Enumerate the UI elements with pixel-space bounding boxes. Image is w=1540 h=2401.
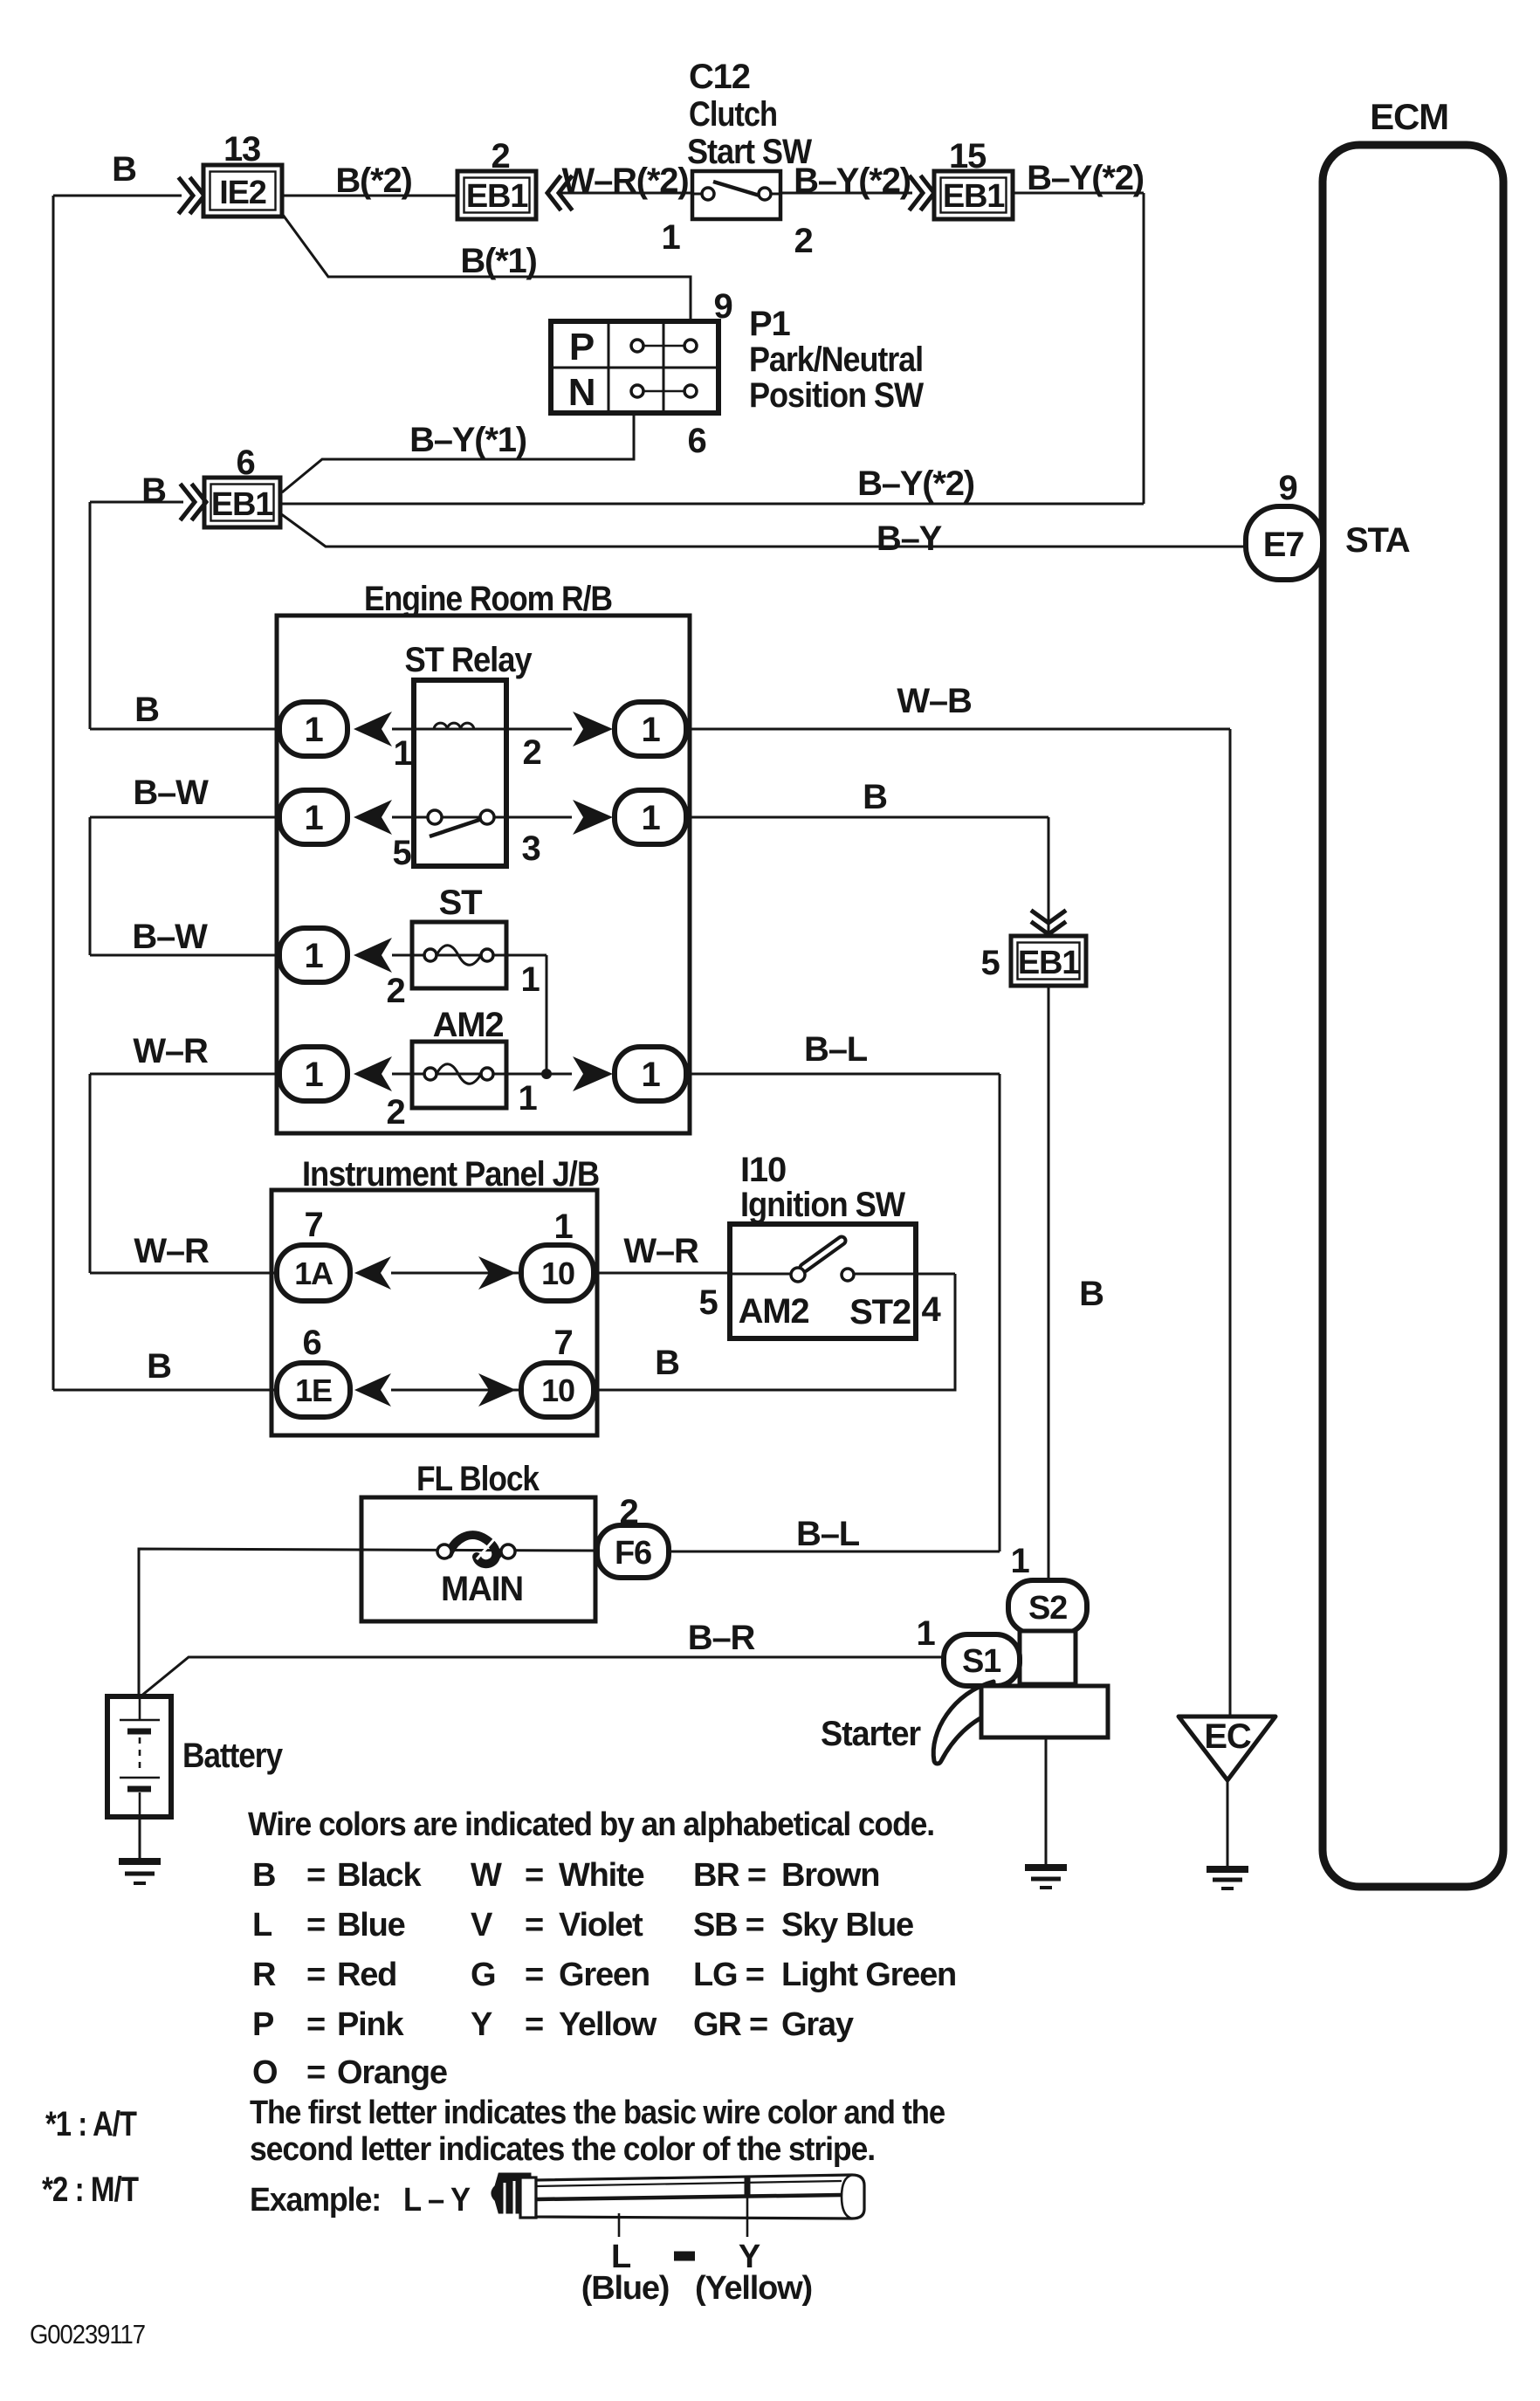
- svg-text:13: 13: [223, 130, 260, 169]
- wire vertical B-Y(*2): [1143, 193, 1145, 504]
- svg-text:B: B: [134, 691, 159, 729]
- svg-text:1: 1: [661, 218, 680, 257]
- connector oval 1 (row3 left): [279, 928, 347, 982]
- svg-text:1: 1: [520, 960, 540, 999]
- connector oval 1 (row2 right): [615, 790, 686, 844]
- svg-text:EB1: EB1: [466, 178, 528, 215]
- svg-text:1: 1: [393, 734, 412, 773]
- wire B-L vertical: [999, 1074, 1001, 1551]
- svg-text:LG =: LG =: [693, 1957, 764, 1993]
- svg-text:S1: S1: [962, 1643, 1001, 1680]
- svg-text:EB1: EB1: [943, 178, 1005, 215]
- svg-text:2: 2: [794, 222, 812, 260]
- ground (starter): [1025, 1868, 1067, 1888]
- svg-text:1: 1: [1010, 1542, 1029, 1580]
- svg-text:Sky Blue: Sky Blue: [781, 1907, 913, 1944]
- wire W-B vertical to EC: [1229, 729, 1232, 1716]
- connector oval 1 (row4 right): [615, 1047, 686, 1101]
- svg-text:STA: STA: [1345, 521, 1410, 560]
- svg-text:Clutch: Clutch: [689, 95, 777, 134]
- svg-text:F6: F6: [615, 1535, 651, 1572]
- connector oval 10 pin 7: [521, 1324, 594, 1417]
- relay ST Relay: [405, 641, 533, 866]
- wire EC to ground: [1227, 1780, 1229, 1868]
- svg-text:Red: Red: [337, 1957, 396, 1993]
- svg-text:10: 10: [541, 1256, 574, 1291]
- svg-text:1: 1: [641, 799, 660, 837]
- wire starter to ground: [1045, 1737, 1048, 1867]
- arrow right row1: [573, 712, 613, 746]
- svg-text:W: W: [471, 1857, 502, 1894]
- svg-text:G: G: [471, 1957, 495, 1993]
- left trunk vertical W-R (x103 lower): [89, 1074, 92, 1273]
- svg-text:G00239117: G00239117: [30, 2319, 145, 2349]
- svg-text:White: White: [559, 1857, 643, 1894]
- arrow right row2: [573, 800, 613, 835]
- svg-text:EB1: EB1: [211, 486, 273, 523]
- svg-text:B: B: [112, 150, 136, 189]
- connector oval 1E pin 6: [277, 1324, 350, 1417]
- svg-text:1: 1: [304, 799, 323, 837]
- svg-text:Pink: Pink: [337, 2006, 405, 2043]
- svg-text:B: B: [141, 471, 166, 510]
- arrow left row2: [354, 800, 392, 835]
- legend row P/Y/GR: [252, 2006, 854, 2043]
- wire 1E to 10: [391, 1389, 521, 1392]
- wire B vertical to EB1-5: [1048, 817, 1050, 1580]
- svg-text:=: =: [306, 1907, 325, 1944]
- svg-text:*1 : A/T: *1 : A/T: [45, 2105, 137, 2143]
- svg-text:Yellow: Yellow: [559, 2006, 657, 2043]
- svg-text:Light Green: Light Green: [781, 1957, 956, 1993]
- wire from battery to FL Block MAIN: [139, 1549, 597, 1696]
- svg-text:Example:: Example:: [250, 2182, 381, 2219]
- svg-text:I10: I10: [740, 1151, 786, 1189]
- svg-text:1: 1: [641, 711, 660, 749]
- svg-text:7: 7: [304, 1206, 322, 1244]
- left trunk vertical B-W (x103 middle): [89, 817, 92, 955]
- connector S2: [1008, 1580, 1087, 1634]
- svg-text:B–Y(*2): B–Y(*2): [857, 464, 974, 503]
- svg-text:N: N: [568, 371, 595, 414]
- junction block Engine Room R/B: [277, 580, 690, 1133]
- svg-text:B–Y(*2): B–Y(*2): [1027, 159, 1144, 197]
- svg-text:EB1: EB1: [1018, 945, 1080, 981]
- switch P1 Park/Neutral Position SW: [551, 287, 924, 460]
- svg-text:L: L: [252, 1907, 272, 1944]
- svg-text:10: 10: [541, 1372, 574, 1408]
- connector oval 10 pin 1: [521, 1207, 594, 1301]
- svg-text:W–R: W–R: [623, 1232, 699, 1270]
- svg-text:Gray: Gray: [781, 2006, 854, 2043]
- svg-text:O: O: [252, 2054, 277, 2091]
- svg-text:BR =: BR =: [693, 1857, 766, 1894]
- arrow into EB1-6: [182, 485, 206, 519]
- svg-text:P1: P1: [749, 305, 790, 343]
- svg-text:B–W: B–W: [132, 918, 208, 956]
- connector F6 pin 2: [597, 1493, 669, 1578]
- svg-text:1A: 1A: [294, 1256, 333, 1291]
- stripe dash: [674, 2252, 695, 2261]
- svg-text:MAIN: MAIN: [441, 1570, 523, 1608]
- svg-text:7: 7: [553, 1324, 572, 1362]
- svg-text:5: 5: [980, 944, 1000, 982]
- arrow left row1: [354, 712, 392, 746]
- svg-text:W–R: W–R: [133, 1032, 209, 1070]
- svg-text:6: 6: [687, 422, 705, 460]
- connector oval 1 (row1 left): [279, 702, 347, 756]
- svg-text:(Yellow): (Yellow): [695, 2270, 812, 2307]
- ground (battery): [119, 1861, 161, 1883]
- svg-text:The first letter indicates the: The first letter indicates the basic wir…: [250, 2095, 945, 2131]
- svg-text:1: 1: [518, 1079, 537, 1118]
- connector IE2 pin 13: [203, 130, 282, 217]
- svg-text:=: =: [306, 2006, 325, 2043]
- junction block Instrument Panel J/B: [272, 1155, 599, 1435]
- svg-text:Engine Room R/B: Engine Room R/B: [364, 580, 612, 618]
- svg-text:B(*1): B(*1): [460, 242, 536, 280]
- svg-text:Violet: Violet: [559, 1907, 643, 1944]
- wire battery to ground: [139, 1817, 141, 1861]
- svg-text:B(*2): B(*2): [335, 162, 411, 200]
- svg-text:Battery: Battery: [182, 1737, 284, 1775]
- legend row R/G/LG: [252, 1957, 956, 1993]
- arrow into EB1-5: [1033, 912, 1064, 934]
- svg-text:Y: Y: [471, 2006, 492, 2043]
- svg-text:FL Block: FL Block: [416, 1460, 540, 1498]
- connector EB1 pin 2: [457, 137, 536, 219]
- svg-text:*2 : M/T: *2 : M/T: [42, 2171, 139, 2209]
- svg-text:2: 2: [522, 733, 540, 772]
- arrow left row3: [354, 938, 392, 973]
- svg-text:1: 1: [553, 1207, 573, 1246]
- connector oval 1 (row1 right): [615, 702, 686, 756]
- svg-text:Black: Black: [337, 1857, 422, 1894]
- svg-text:=: =: [306, 2054, 325, 2091]
- svg-text:IE2: IE2: [219, 175, 266, 211]
- svg-text:ST Relay: ST Relay: [405, 641, 533, 679]
- svg-text:Orange: Orange: [337, 2054, 447, 2091]
- left trunk vertical B (x103 upper): [89, 502, 92, 729]
- svg-text:1: 1: [641, 1056, 660, 1094]
- svg-text:ECM: ECM: [1370, 96, 1448, 137]
- svg-text:=: =: [525, 1857, 543, 1894]
- svg-text:=: =: [306, 1857, 325, 1894]
- svg-text:P: P: [252, 2006, 274, 2043]
- connector S1: [944, 1634, 1020, 1686]
- relay contact switch: [428, 810, 494, 836]
- pointer L: [618, 2213, 621, 2237]
- svg-text:V: V: [471, 1907, 493, 1944]
- svg-text:B–L: B–L: [796, 1515, 860, 1553]
- svg-text:=: =: [525, 1907, 543, 1944]
- ground (EC): [1207, 1869, 1248, 1888]
- switch C12 Clutch Start SW: [661, 58, 812, 260]
- svg-text:9: 9: [1278, 469, 1296, 507]
- svg-text:3: 3: [521, 829, 540, 868]
- connector EB1 pin 5: [980, 936, 1086, 986]
- svg-text:=: =: [525, 2006, 543, 2043]
- wire 1A to 10: [391, 1272, 521, 1275]
- svg-text:=: =: [306, 1957, 325, 1993]
- wire through relay contacts row2: [392, 816, 572, 819]
- arrow right 10: [478, 1256, 516, 1290]
- svg-text:R: R: [252, 1957, 276, 1993]
- arrow right 10 (row2): [478, 1373, 516, 1407]
- fuse block FL Block: [361, 1460, 595, 1621]
- svg-text:4: 4: [921, 1290, 941, 1329]
- svg-text:1: 1: [304, 711, 323, 749]
- svg-text:Instrument Panel J/B: Instrument Panel J/B: [302, 1155, 599, 1194]
- svg-text:2: 2: [386, 972, 404, 1010]
- wire ST2 loop down: [594, 1274, 955, 1390]
- svg-text:1: 1: [916, 1614, 935, 1653]
- svg-text:B–Y(*1): B–Y(*1): [409, 421, 526, 459]
- svg-text:Wire colors are indicated by a: Wire colors are indicated by an alphabet…: [248, 1806, 934, 1843]
- switch I10 Ignition SW: [698, 1151, 955, 1338]
- svg-text:B–W: B–W: [133, 774, 209, 812]
- fusible link MAIN: [437, 1535, 523, 1608]
- svg-text:EC: EC: [1204, 1717, 1250, 1756]
- svg-text:B: B: [655, 1344, 679, 1382]
- arrow left 1E: [354, 1373, 391, 1407]
- svg-text:Position SW: Position SW: [749, 376, 924, 415]
- battery: [107, 1696, 284, 1817]
- svg-text:B: B: [1079, 1275, 1103, 1313]
- legend row B/W/BR: [252, 1857, 879, 1894]
- wire B into EB1-6: [90, 501, 183, 504]
- svg-text:ST: ST: [439, 884, 482, 922]
- connector oval 1 (row4 left): [279, 1047, 347, 1101]
- svg-text:E7: E7: [1263, 526, 1304, 564]
- fuse ST: [386, 884, 547, 1010]
- connector oval 1 (row2 left): [279, 790, 347, 844]
- starter body: [981, 1686, 1108, 1737]
- svg-text:AM2: AM2: [433, 1006, 504, 1044]
- svg-text:1: 1: [304, 1056, 323, 1094]
- svg-text:2: 2: [386, 1093, 404, 1132]
- svg-text:B: B: [252, 1857, 275, 1894]
- svg-text:B: B: [147, 1347, 171, 1386]
- svg-text:B–L: B–L: [804, 1030, 868, 1069]
- pointer Y: [746, 2196, 749, 2237]
- example wire illustration: [492, 2174, 864, 2219]
- svg-text:5: 5: [698, 1283, 718, 1322]
- node: left trunk wire B vertical: [52, 196, 55, 1390]
- legend row O: [252, 2054, 447, 2091]
- relay coil: [434, 723, 474, 729]
- connector oval 1A pin 7: [277, 1206, 350, 1301]
- svg-text:P: P: [569, 326, 594, 368]
- svg-text:L – Y: L – Y: [403, 2182, 471, 2219]
- svg-text:B–R: B–R: [688, 1619, 756, 1657]
- wire through relay coil row1: [392, 728, 572, 731]
- svg-text:1: 1: [304, 937, 323, 975]
- junction dot: [541, 1069, 552, 1079]
- connector EB1 pin 6: [141, 444, 280, 527]
- ECM module: [1323, 96, 1503, 1887]
- legend row L/V/SB: [252, 1907, 913, 1944]
- svg-text:Park/Neutral: Park/Neutral: [749, 341, 923, 379]
- svg-text:Blue: Blue: [337, 1907, 405, 1944]
- arrow left row4: [354, 1056, 392, 1091]
- svg-text:(Blue): (Blue): [581, 2270, 669, 2307]
- arrow into EB1-15: [911, 177, 934, 209]
- svg-text:Starter: Starter: [821, 1715, 921, 1753]
- svg-text:Ignition SW: Ignition SW: [740, 1186, 905, 1224]
- svg-text:W–R: W–R: [134, 1232, 210, 1270]
- svg-text:S2: S2: [1028, 1590, 1067, 1627]
- svg-text:SB =: SB =: [693, 1907, 764, 1944]
- svg-text:W–B: W–B: [897, 682, 972, 720]
- arrow right row4: [573, 1056, 613, 1091]
- svg-text:AM2: AM2: [739, 1292, 809, 1331]
- svg-text:B: B: [863, 778, 887, 816]
- svg-text:6: 6: [302, 1324, 320, 1362]
- svg-text:Green: Green: [559, 1957, 650, 1993]
- svg-text:B–Y: B–Y: [877, 519, 943, 558]
- svg-text:second letter indicates the co: second letter indicates the color of the…: [250, 2131, 875, 2168]
- arrow into IE2: [180, 179, 204, 212]
- ground terminal EC: [1179, 1716, 1275, 1780]
- svg-text:ST2: ST2: [849, 1293, 911, 1331]
- wire ST fuse to AM2 junction: [546, 955, 548, 1074]
- svg-text:Brown: Brown: [781, 1857, 879, 1894]
- svg-text:GR =: GR =: [693, 2006, 767, 2043]
- svg-text:=: =: [525, 1957, 543, 1993]
- fuse AM2: [386, 1006, 572, 1132]
- starter terminal stem: [1020, 1631, 1076, 1684]
- arrow left 1A: [354, 1256, 391, 1290]
- svg-text:1E: 1E: [295, 1372, 332, 1408]
- arrow into EB1-2: [547, 177, 571, 209]
- svg-text:C12: C12: [689, 58, 750, 96]
- svg-text:5: 5: [392, 834, 411, 872]
- connector EB1 pin 15: [934, 137, 1013, 219]
- connector E7 pin 9: [1246, 469, 1323, 580]
- starter pinion hook: [933, 1682, 995, 1764]
